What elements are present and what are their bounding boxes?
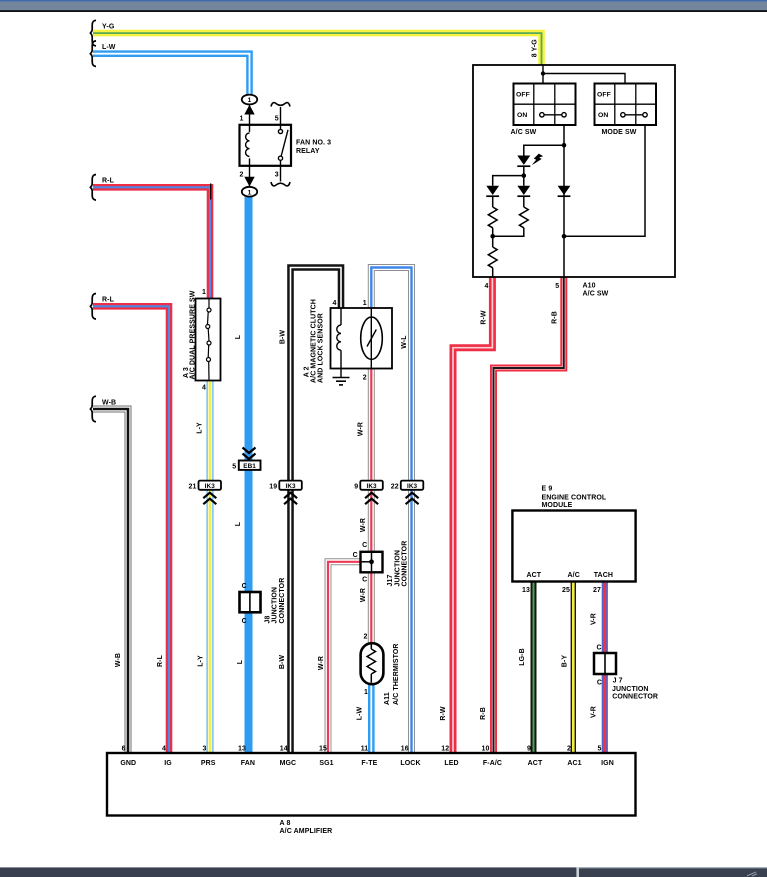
junction connector J8 [240,578,286,625]
svg-text:12: 12 [441,745,449,752]
svg-text:A/C THERMISTOR: A/C THERMISTOR [393,643,400,705]
diode D4 (right) [558,186,571,197]
relay label FAN NO. 3 RELAY [296,140,331,155]
wire B-Y from E9 A/C to amplifier AC1 [571,582,576,754]
svg-text:J 7: J 7 [613,678,623,685]
junction connector J7 [594,645,658,701]
LED D1 [517,154,543,167]
relay pin 5 stub with cut squiggle [271,103,290,125]
svg-text:MODULE: MODULE [542,502,573,509]
arrow into relay pin 1 [244,104,254,124]
A10 internal main line from A/C SW to pin 5 [562,125,567,277]
svg-text:A 8: A 8 [280,820,291,827]
A2 lock sensor [361,308,383,368]
svg-text:V-R: V-R [590,613,597,625]
node: Y-G entry line into A/C SW [541,65,625,84]
svg-text:JUNCTION: JUNCTION [394,550,401,587]
MODE SW return line [564,125,645,236]
wire W-B to amplifier GND [93,409,128,754]
svg-text:5: 5 [232,463,236,470]
A10 name label [583,283,609,298]
svg-text:L: L [237,659,244,664]
A/C SW contact [540,113,567,117]
svg-text:CONNECTOR: CONNECTOR [402,541,409,587]
svg-text:V-R: V-R [590,706,597,718]
connector EB1 on L wire [232,448,260,471]
svg-text:EB1: EB1 [243,463,256,470]
svg-text:6: 6 [122,745,126,752]
svg-text:W-R: W-R [318,656,325,670]
svg-text:IK3: IK3 [205,483,216,490]
svg-text:14: 14 [280,745,288,752]
svg-text:LED: LED [444,760,458,767]
svg-text:E 9: E 9 [542,486,553,493]
wire R-W from A10 pin 4 to amplifier LED [453,278,492,755]
harness brace W-B [90,396,96,422]
svg-text:SG1: SG1 [319,760,333,767]
resistor R3 (bottom left) [488,236,497,277]
svg-text:C: C [353,552,358,559]
connector IK3 (22) on W-L wire [391,481,424,505]
svg-text:1: 1 [248,97,252,104]
svg-text:A11: A11 [384,692,391,705]
fan relay connector oval 1 (bottom) [242,187,257,197]
wire V-R from E9 TACH through J7 to amplifier IGN [602,582,608,754]
svg-text:8: 8 [532,53,539,57]
svg-text:MODE SW: MODE SW [602,129,637,136]
svg-text:OFF: OFF [516,92,530,99]
svg-text:R-W: R-W [480,310,487,325]
svg-text:C: C [362,542,367,549]
harness brace R-L lower [90,294,96,320]
svg-text:W-R: W-R [360,588,367,602]
MODE SW switch table [595,84,657,126]
svg-text:19: 19 [269,483,277,490]
wire R-B from A10 pin 5 to amplifier F-A/C [494,278,564,755]
svg-text:GND: GND [120,760,136,767]
svg-text:5: 5 [598,745,602,752]
A/C SW switch table [514,84,576,126]
diode D2 (left) [486,186,499,207]
svg-text:W-B: W-B [102,399,116,406]
bottom status bar [0,867,767,877]
svg-text:1: 1 [202,289,206,296]
A8 amplifier box [107,753,636,835]
svg-text:B-W: B-W [279,330,286,345]
svg-text:15: 15 [319,745,327,752]
svg-text:25: 25 [562,587,570,594]
COMPONENTS LAYER [90,20,675,835]
svg-text:A/C SW: A/C SW [583,290,609,297]
svg-text:FAN: FAN [241,760,255,767]
resistor R2 (middle) [493,207,529,236]
svg-text:Y-G: Y-G [532,39,539,52]
A3 pin labels [202,289,206,392]
svg-text:W-L: W-L [401,335,408,349]
svg-text:13: 13 [238,745,246,752]
svg-text:JUNCTION: JUNCTION [272,587,279,624]
wire W-R branch from J17 to amplifier SG1 [328,562,361,754]
arrow out of relay pin 2 [244,166,254,187]
A8 terminal labels [120,760,614,767]
wire L solid blue relay to amplifier FAN [245,197,253,754]
svg-text:A/C: A/C [568,572,580,579]
fan relay connector oval 1 (top) [242,95,257,105]
svg-text:21: 21 [189,483,197,490]
svg-text:10: 10 [482,745,490,752]
svg-text:R-W: R-W [440,706,447,721]
svg-text:C: C [362,577,367,584]
svg-text:IGN: IGN [601,760,614,767]
wire R-L lower to amplifier IG [93,306,169,754]
top toolbar bar [0,0,767,12]
A3 dual pressure switch box [196,299,221,381]
relay coil [246,125,250,166]
svg-text:9: 9 [527,745,531,752]
svg-text:W-R: W-R [357,422,364,436]
ground below A2 coil [333,378,350,385]
svg-text:4: 4 [162,745,166,752]
junction connector J17 [353,541,409,587]
E9 engine control module box [512,486,635,595]
svg-text:RELAY: RELAY [296,148,320,155]
A2 magnetic clutch box [331,308,393,369]
A10 A/C SW box [473,65,675,277]
wire W-R from A2 pin 2 through J17 to A11 thermistor [368,368,375,644]
svg-text:OFF: OFF [597,92,611,99]
relay pin labels [240,116,279,179]
node below LED [493,166,526,186]
svg-text:J8: J8 [264,616,271,624]
svg-text:1: 1 [248,189,252,196]
svg-text:A10: A10 [583,283,596,290]
svg-text:L-Y: L-Y [198,655,205,667]
svg-text:IG: IG [164,760,172,767]
harness brace L-W [90,41,96,67]
MODE SW contact [621,113,648,117]
svg-text:W-R: W-R [360,518,367,532]
svg-text:Y-G: Y-G [102,23,115,30]
svg-text:B-Y: B-Y [561,655,568,668]
wire L-W from A11 thermistor to amplifier F-TE [368,682,375,754]
svg-text:2: 2 [363,374,367,381]
svg-text:3: 3 [203,745,207,752]
connector IK3 (9) on W-R wire [354,481,383,505]
wire L-Y from A3 pin 4 to amplifier PRS [207,381,214,755]
svg-text:1: 1 [363,300,367,307]
svg-text:ON: ON [517,112,527,119]
svg-text:ACT: ACT [527,572,542,579]
relay switch contacts [278,125,288,166]
svg-text:C: C [597,645,602,652]
A8 pin numbers [122,745,602,752]
svg-text:C: C [242,618,247,625]
svg-text:J17: J17 [387,575,394,587]
WIRE LABELS [102,23,539,406]
svg-text:5: 5 [275,116,279,123]
svg-text:A/C MAGNETIC CLUTCH: A/C MAGNETIC CLUTCH [311,299,318,383]
svg-text:4: 4 [485,283,489,290]
svg-text:B-W: B-W [279,655,286,670]
svg-text:ACT: ACT [528,760,543,767]
svg-text:1: 1 [240,116,244,123]
svg-text:AC1: AC1 [567,760,581,767]
svg-text:ENGINE CONTROL: ENGINE CONTROL [542,494,607,501]
svg-text:CONNECTOR: CONNECTOR [279,578,286,624]
svg-text:AND LOCK SENSOR: AND LOCK SENSOR [318,313,325,383]
svg-text:F-TE: F-TE [361,760,377,767]
A10 pin labels [485,283,560,290]
svg-text:W-B: W-B [115,653,122,667]
wire LG-B from E9 ACT to amplifier ACT [531,582,537,754]
svg-text:5: 5 [555,283,559,290]
svg-text:2: 2 [364,634,368,641]
svg-text:F-A/C: F-A/C [483,760,502,767]
thermistor A11 [361,634,400,705]
svg-text:L: L [235,334,242,339]
svg-text:A/C DUAL PRESSURE SW: A/C DUAL PRESSURE SW [190,290,197,379]
harness brace Y-G [90,20,96,46]
svg-text:ON: ON [598,112,608,119]
svg-text:L: L [235,521,242,526]
svg-text:R-L: R-L [102,297,115,304]
relay pin 3 stub with cut squiggle [271,166,290,186]
svg-text:R-L: R-L [102,178,115,185]
svg-text:FAN NO. 3: FAN NO. 3 [296,140,331,147]
svg-text:TACH: TACH [594,572,613,579]
svg-text:9: 9 [354,483,358,490]
svg-text:A 2: A 2 [303,366,310,377]
wire B-W amplifier MGC to A2 pin 4 [291,268,342,755]
svg-text:22: 22 [391,483,399,490]
svg-text:MGC: MGC [280,760,297,767]
A3 internal contacts [206,299,211,381]
svg-text:R-L: R-L [157,654,164,667]
svg-text:L-W: L-W [102,44,116,51]
svg-text:R-B: R-B [480,707,487,720]
svg-text:PRS: PRS [201,760,216,767]
svg-text:IK3: IK3 [366,483,377,490]
svg-text:A/C SW: A/C SW [511,129,537,136]
svg-text:16: 16 [401,745,409,752]
svg-text:R-B: R-B [551,311,558,324]
svg-text:2: 2 [240,172,244,179]
svg-text:2: 2 [567,745,571,752]
svg-text:4: 4 [333,300,337,307]
A3 label rotated [183,290,197,379]
svg-text:LOCK: LOCK [400,760,420,767]
wire L-W from harness to relay pin connector [93,54,250,94]
svg-text:LG-B: LG-B [519,648,526,666]
A2 label rotated [303,299,324,383]
A2 pin labels [333,300,367,381]
svg-text:13: 13 [522,587,530,594]
connector IK3 (19) on B-W wire [269,481,302,505]
resistor R1 (left) [488,207,497,239]
wire R-L upper to A3 pin 1 [93,187,210,298]
A2 clutch coil [337,308,341,377]
diode D3 (middle) [517,186,530,207]
svg-text:11: 11 [361,745,369,752]
svg-text:3: 3 [275,172,279,179]
svg-text:JUNCTION: JUNCTION [612,686,649,693]
harness brace R-L upper [90,175,96,201]
corner tick near R-L bend [210,184,212,200]
relay FAN NO. 3 box [240,125,292,166]
wire Y-G from harness to A10 pin 8 [93,33,542,65]
WIRES LAYER [93,33,605,754]
svg-text:A/C AMPLIFIER: A/C AMPLIFIER [280,828,333,835]
svg-text:C: C [597,679,602,686]
svg-text:CONNECTOR: CONNECTOR [612,693,658,700]
svg-text:L-W: L-W [357,706,364,720]
svg-text:C: C [242,583,247,590]
svg-text:4: 4 [202,385,206,392]
wire W-L amplifier LOCK to A2 pin 1 [371,268,411,755]
svg-text:IK3: IK3 [407,483,418,490]
svg-text:27: 27 [593,587,601,594]
svg-text:1: 1 [364,689,368,696]
svg-text:L-Y: L-Y [196,422,203,434]
connector IK3 (21) on L-Y wire [189,481,222,505]
svg-text:IK3: IK3 [285,483,296,490]
branch wire to LED [524,145,564,155]
